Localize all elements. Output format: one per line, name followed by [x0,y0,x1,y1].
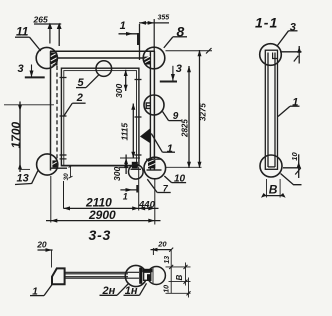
1-1 dim 10 line [283,167,301,169]
dim 3275 arrow bottom [198,162,202,168]
svg-text:11: 11 [16,24,29,38]
dim 1700 arrow top [18,105,22,111]
svg-text:3: 3 [176,63,182,75]
label 5 leader [86,75,99,88]
1-1 dim B arrow a [261,193,267,198]
section marker 3 left: arrow line [31,65,33,78]
small-circle foot bottom [131,168,142,170]
svg-text:3275: 3275 [198,103,207,121]
1-1 top dim line [280,51,302,53]
dim 2900 line [46,220,161,222]
1-1 member outer rect [265,50,277,169]
opening bottom thick line [61,165,139,167]
dim 3275 arrow top [198,50,202,56]
detail circle 5 top-center [96,61,112,77]
label 1 (1-1) underline [290,105,300,107]
label 7 leader [147,179,157,192]
svg-text:265: 265 [33,14,48,24]
svg-text:8: 8 [177,23,185,39]
1-1 dim 10 tick [295,168,301,175]
1-1 top dim ext [298,46,300,64]
3-3 stack ticks [169,248,190,296]
3-3 right dim 20 arrow [151,248,158,252]
dim right ext bottom [166,166,202,168]
dim 2110 arrow right [132,206,139,210]
label 13 leader [32,170,39,184]
detail circle top-left [36,47,57,68]
1-1 member inner bottom [268,166,275,168]
3-3 stack ext mid [169,281,191,283]
frame left member outer line [50,51,52,170]
tick right opening y155 [135,154,142,156]
small-circle foot hatch [132,162,138,169]
dim 2900 ext left [50,176,52,223]
svg-text:10: 10 [164,285,171,293]
3-3 left joint circle [125,265,146,286]
opening rect outer [61,68,138,166]
svg-text:2: 2 [76,92,83,104]
label 5 underline [76,87,86,89]
dim 2825 arrow bottom [187,162,191,168]
section marker 3 left: arrowhead [30,71,34,78]
dim 355 arrow b [148,21,155,25]
3-3 right dim 20 line [151,249,172,251]
svg-text:13: 13 [164,256,171,264]
label 13 underline [15,184,32,185]
dim 355 arrow a [140,21,147,25]
1-1 top circle [260,44,282,66]
dim 265 line [34,23,61,25]
dim ext right x154.8 [154,178,156,225]
dim ext x138.7 [138,167,140,211]
label 2 underline [72,102,85,104]
label 2 leader [64,103,73,116]
svg-text:2825: 2825 [180,119,189,138]
1-1 dim B line [263,195,284,197]
section marker 3 right: arrowhead [171,74,175,81]
section marker 3 right: arrow line [172,66,174,81]
left foot tick [60,158,67,160]
svg-text:В: В [175,275,184,281]
svg-text:3-3: 3-3 [89,227,112,243]
dim 2110 line [64,207,139,209]
dim 300 bottom boundary tick [120,157,140,159]
label 11 leader [30,37,41,51]
3-3 bar bottom lines [65,277,128,279]
detail circle top-right [143,47,165,69]
section marker 1 bottom: arrow [126,188,133,192]
1-1 top dim tick [294,56,299,62]
label 2n underline [100,294,118,296]
1-1 bottom leader [281,174,302,185]
label 7 underline [157,192,171,194]
svg-text:3: 3 [290,22,296,34]
1-1 member inner left wall [267,53,269,168]
label 8 underline [173,36,187,38]
svg-text:20: 20 [36,239,47,249]
svg-text:20: 20 [157,240,167,249]
3-3 joint profile top piece [142,269,152,272]
detail circle bottom-right big [144,157,166,179]
svg-text:30: 30 [63,173,70,181]
3-3 bar top lines [65,272,128,274]
frame right member outer line [153,51,155,170]
dim 30 mini line [70,167,72,178]
dim 265 arrow b [57,23,62,29]
label 1 (3-3) underline [30,295,44,297]
dim 2825 line [188,66,190,168]
right foot hatch block [148,159,155,169]
svg-text:2н: 2н [102,285,116,297]
svg-text:1115: 1115 [120,123,130,141]
svg-text:300: 300 [114,84,124,98]
3-3 stack dim line a [185,263,187,286]
dim 300 bottom lower segment [119,167,129,169]
3-3 joint profile vertical bar [139,268,142,284]
1-1 dim 10 ext [298,154,300,178]
1-1 dim B ext a [266,179,268,198]
dim 1700 line [19,102,21,173]
opening rect inner [64,71,137,166]
label 1 right underline [162,151,175,153]
3-3 right ext long vertical [170,250,172,294]
dim 3275 top tick [206,48,212,54]
label 11 underline [15,36,30,38]
dim 1115 line [132,104,134,159]
section marker 1 top: line [119,33,139,35]
section marker 1 top: cut stroke [137,33,139,45]
3-3 left dim 20 arrow [46,248,53,252]
tick left opening y116 [60,115,67,117]
3-3 joint profile core [147,274,151,280]
dim 2900 arrow left [51,219,58,223]
right foot tick [146,158,162,160]
1-1 notch detail [273,53,278,59]
dim 265 ext line a [49,24,51,44]
3-3 bar lines through circles [128,272,139,278]
tick left opening y78 [60,77,67,79]
svg-text:1: 1 [123,191,128,201]
dim 440 arrow left [139,206,146,210]
3-3 stack dim line b [188,278,190,298]
1-1 bottom circle [260,155,282,177]
dim 440 arrow right [148,206,155,210]
svg-text:5: 5 [78,77,85,89]
tick right opening y79.5 [135,79,142,81]
svg-text:В: В [269,183,278,197]
frame top member inner line [50,57,150,59]
svg-text:1-1: 1-1 [255,14,278,30]
detail circle bottom-left [37,154,58,175]
top-left corner hatch block [51,52,58,65]
dim 1700 arrow bottom [18,163,22,169]
svg-text:355: 355 [158,14,170,21]
svg-text:1: 1 [292,97,298,109]
label 1 (3-3) leader [44,285,52,296]
label 9 underline [169,120,182,122]
svg-text:300: 300 [112,167,122,181]
label 8 leader [164,37,173,48]
1-1 top dim arrow [297,47,301,53]
dim 300 bottom line [125,155,127,175]
section marker 1 bottom: cut stroke [136,185,138,193]
svg-text:3: 3 [18,63,24,75]
dim 2110 arrow left [64,206,71,210]
top-right corner hatch block [144,57,150,65]
label 3 (1-1) underline [289,30,298,32]
tick right opening y117 [135,116,142,118]
1-1 dim 10 arrow [297,162,301,168]
label 9 leader [163,112,169,121]
dim 265 arrow a [48,23,53,29]
detail circle middle-right [144,95,164,115]
frame top member outer line [50,50,155,52]
section marker 1 bottom: line [120,189,137,191]
dim 440 line [139,207,159,209]
dim 3275 line [199,50,201,168]
svg-text:1700: 1700 [9,121,23,148]
dim 3275 ext top [166,50,213,52]
label 10 underline [172,182,187,184]
dim 2900 arrow right [148,219,155,223]
3-3 stack ext bottom [166,292,191,294]
1-1 dim B ext b [279,179,281,198]
3-3 right joint circle [147,267,165,285]
dim 300 top arrow down [124,85,128,91]
dim 1700 ext top [4,104,54,106]
dim 300 bottom arrow down [124,161,128,167]
3-3 left dim 20 line [38,249,53,251]
dim 300 top line [125,70,127,91]
frame right member inner line [149,52,151,171]
3-3 stack ext top [166,266,191,268]
right foot bottom line [147,169,162,171]
1-1 dim B arrow b [280,193,286,198]
left foot hatch block [52,160,57,167]
3-3 right chord line [152,268,154,284]
svg-text:10: 10 [290,152,299,161]
weld triangle on right member [141,129,151,144]
label 1n underline [124,294,140,296]
label 2n leader [117,284,128,296]
label 10 leader [164,176,171,183]
svg-text:1: 1 [120,20,126,32]
frame left member axis dashed line [56,59,58,168]
middle-right anchor mark [146,102,150,109]
dim 2110 ext left [63,181,65,209]
left foot bottom line [51,167,68,169]
dim 355 ext b [153,19,155,51]
3-3 left dim 20 ext [51,250,53,268]
3-3 right dim 20 tick a [152,248,154,255]
label 1 right leader [151,134,162,153]
dim 30 mini ticks [69,166,73,179]
dim 300 top arrow up [124,70,128,76]
tick left opening y155 [60,154,67,156]
dim 355 ext a [139,24,141,60]
svg-text:1: 1 [32,286,38,297]
label 1 (1-1) leader [278,106,290,116]
svg-text:10: 10 [174,174,186,185]
svg-text:2900: 2900 [88,208,116,222]
dim 300 bottom arrow up [124,158,128,164]
section marker 1 top: arrow [126,32,133,36]
dim 265 ext line b [58,24,60,46]
3-3 joint profile square [144,272,151,280]
label 3 (1-1) leader [277,31,289,47]
dim 2825 arrow top [187,66,191,72]
svg-text:1н: 1н [125,285,138,297]
1-1 member inner right wall [274,53,276,168]
dim 1700 ext bottom [20,168,30,170]
detail circle bottom-right small [129,165,144,180]
svg-text:13: 13 [17,172,29,184]
3-3 left angle profile [52,268,65,284]
dim 355 line [139,22,169,24]
svg-text:1: 1 [167,143,173,155]
svg-text:440: 440 [138,199,156,210]
dim 1115 arrow up [131,104,135,110]
svg-text:9: 9 [173,111,179,122]
dim 1115 arrow down [131,152,135,158]
label 1n leader [139,283,146,295]
section marker 3 right: cut stroke [160,81,177,83]
section marker 3 left: cut stroke [25,76,45,78]
